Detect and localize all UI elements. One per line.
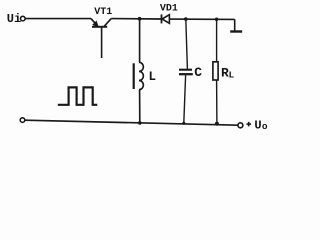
ground	[230, 19, 242, 31]
label plus	[246, 122, 251, 127]
svg-text:C: C	[194, 65, 202, 80]
bottom rail wire	[25, 120, 238, 125]
base drive square wave	[58, 87, 98, 104]
svg-text:VT1: VT1	[94, 7, 112, 18]
junction inductor bottom	[138, 121, 142, 125]
capacitor C	[179, 19, 193, 123]
wire VD1 to ground corner	[169, 18, 234, 20]
output terminal plus (bottom-right)	[238, 123, 243, 128]
input return terminal (bottom-left)	[20, 118, 25, 123]
resistor RL	[213, 19, 218, 123]
junction resistor bottom	[215, 122, 219, 126]
svg-text:o: o	[262, 121, 268, 131]
svg-text:L: L	[229, 69, 235, 80]
input terminal Ui	[21, 16, 26, 21]
diode VD1	[162, 14, 170, 23]
wire inductor to bottom rail	[139, 90, 141, 123]
svg-text:VD1: VD1	[160, 3, 178, 14]
junction capacitor bottom	[182, 122, 185, 125]
svg-text:U: U	[254, 118, 261, 131]
svg-text:L: L	[149, 70, 157, 84]
wire input to VT1 emitter	[25, 18, 91, 20]
junction resistor top	[215, 18, 219, 22]
transistor VT1	[91, 19, 111, 58]
wire VT1 collector to VD1	[111, 18, 161, 20]
wire node A down to inductor	[139, 19, 141, 63]
inductor L	[134, 62, 144, 89]
svg-text:Ui: Ui	[7, 12, 21, 26]
junction capacitor top	[184, 17, 188, 21]
node A junction	[138, 17, 142, 21]
